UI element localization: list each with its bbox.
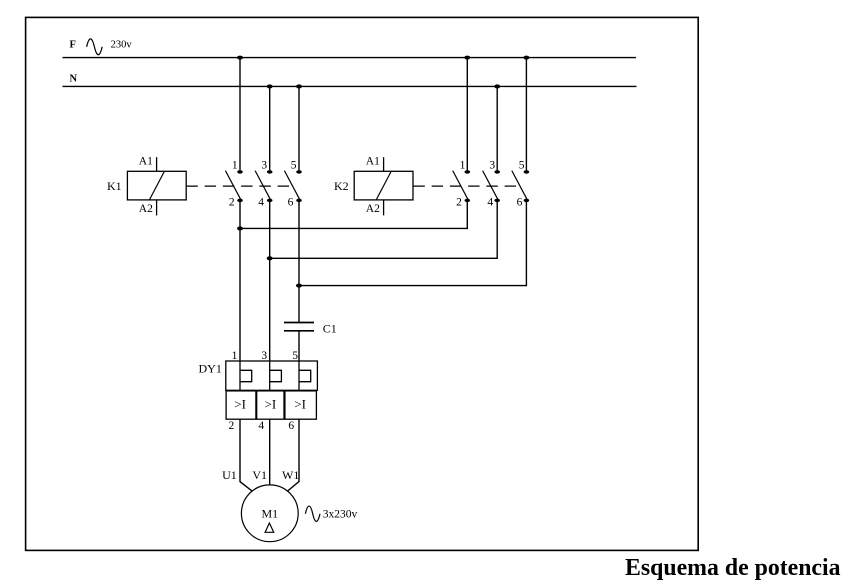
wire N down to K2 contact 3 [496, 86, 498, 170]
K2 mechanical linkage dashed line [413, 185, 516, 187]
motor delta winding symbol [265, 523, 274, 532]
capacitor C1 top plate [284, 322, 314, 324]
svg-text:2: 2 [229, 196, 235, 208]
svg-text:4: 4 [487, 196, 493, 208]
svg-text:1: 1 [232, 350, 238, 362]
junction dot F to K2 pole1 [464, 56, 470, 60]
DY1 trip unit box 1 [226, 391, 256, 419]
wire K1 pin6 down to C1 [298, 200, 300, 322]
svg-text:3: 3 [261, 159, 267, 171]
junction dot F to K1 pole1 [237, 56, 243, 60]
svg-text:1: 1 [232, 159, 238, 171]
K1 contact 5-6 blade [284, 171, 299, 200]
wire C1 down to DY1 pin5 [298, 331, 300, 361]
wire N neutral bus [63, 85, 637, 87]
wire DY1 pin4 to motor V1 [269, 419, 271, 485]
svg-text:K1: K1 [107, 179, 122, 193]
DY1 heater element 3 [299, 361, 311, 390]
K1 contact 1 top terminal dot [237, 170, 243, 174]
K1 mechanical linkage dashed line [186, 185, 289, 187]
wire DY1 pin6 to motor W1 [288, 419, 299, 491]
DY1 trip unit box 2 [257, 391, 284, 419]
junction dot wire1 [237, 226, 243, 230]
K1 contact 6 bottom terminal dot [296, 199, 302, 203]
junction dot N to K1 pole3 [267, 84, 273, 88]
svg-text:5: 5 [291, 159, 297, 171]
svg-text:Esquema de potencia: Esquema de potencia [625, 555, 841, 581]
K2 contact 5-6 blade [512, 171, 527, 200]
svg-text:5: 5 [292, 350, 298, 362]
svg-text:U1: U1 [222, 468, 237, 482]
K1 contact 4 bottom terminal dot [267, 199, 273, 203]
motor M1 circle [241, 485, 298, 542]
svg-text:K2: K2 [334, 179, 349, 193]
junction dot F to K2 pole5 [523, 56, 529, 60]
K2 contact 1 top terminal dot [465, 170, 471, 174]
K1 contact 2 bottom terminal dot [237, 199, 243, 203]
svg-text:3x230v: 3x230v [323, 508, 358, 520]
AC sine symbol at motor [305, 506, 320, 521]
svg-text:6: 6 [288, 420, 294, 432]
svg-text:5: 5 [519, 159, 525, 171]
wire K1 pin4 down to DY1 pin3 [269, 200, 271, 361]
svg-text:6: 6 [288, 196, 294, 208]
wire K2 pin6 to wire3 [299, 200, 526, 285]
wire K1 pin2 down to DY1 pin1 [239, 200, 241, 361]
svg-text:>I: >I [234, 397, 246, 412]
K2 contact 1-2 blade [453, 171, 468, 200]
K2 pin A1 lead [383, 157, 385, 171]
K2 contact 5 top terminal dot [524, 170, 530, 174]
junction dot N to K2 pole3 [494, 84, 500, 88]
svg-text:W1: W1 [282, 468, 299, 482]
thermal overload relay DY1 outer box [226, 361, 318, 390]
K1 contact 5 top terminal dot [296, 170, 302, 174]
junction dot wire3 [296, 284, 302, 288]
wire K2 pin4 to wire2 [270, 200, 498, 258]
K2 contact 2 bottom terminal dot [465, 199, 471, 203]
wire N down to K1 contact 3 [269, 86, 271, 170]
contactor coil K2 box [354, 171, 413, 200]
K2 contact 3 top terminal dot [494, 170, 500, 174]
wire F phase bus [63, 57, 637, 59]
K1 pin A2 lead [156, 200, 158, 216]
contactor coil K1 box [127, 171, 186, 200]
svg-text:N: N [70, 73, 78, 84]
svg-text:3: 3 [489, 159, 495, 171]
svg-text:A2: A2 [366, 203, 380, 215]
junction dot wire2 [267, 256, 273, 260]
svg-text:4: 4 [258, 196, 264, 208]
K1 pin A1 lead [156, 157, 158, 171]
svg-text:>I: >I [294, 397, 306, 412]
svg-text:A1: A1 [139, 155, 153, 167]
K2 contact 6 bottom terminal dot [524, 199, 530, 203]
svg-text:3: 3 [261, 350, 267, 362]
junction dot N to K1 pole5 [296, 84, 302, 88]
svg-text:2: 2 [456, 196, 462, 208]
svg-text:M1: M1 [262, 506, 279, 520]
svg-text:A2: A2 [139, 203, 153, 215]
svg-text:>I: >I [265, 397, 277, 412]
svg-text:DY1: DY1 [199, 362, 222, 376]
svg-text:4: 4 [258, 420, 264, 432]
svg-text:230v: 230v [111, 40, 133, 51]
K2 coil diagonal [376, 172, 391, 200]
svg-text:C1: C1 [323, 321, 337, 335]
wire F down to K2 contact 1 [466, 58, 468, 171]
K2 pin A2 lead [383, 200, 385, 216]
capacitor C1 bottom plate [284, 330, 314, 332]
svg-text:A1: A1 [366, 155, 380, 167]
svg-text:2: 2 [229, 420, 235, 432]
svg-text:6: 6 [517, 196, 523, 208]
DY1 trip unit box 3 [285, 391, 317, 419]
wire F down to K1 contact 1 [239, 58, 241, 171]
K1 coil diagonal [149, 172, 164, 200]
svg-text:F: F [70, 40, 76, 51]
K1 contact 1-2 blade [225, 171, 240, 200]
AC source sine symbol [87, 39, 103, 55]
DY1 heater element 1 [240, 361, 252, 390]
wire DY1 pin2 to motor U1 [240, 419, 252, 491]
K2 contact 3-4 blade [483, 171, 498, 200]
wire K2 pin2 to wire1 [240, 200, 467, 228]
K2 contact 4 bottom terminal dot [494, 199, 500, 203]
svg-text:V1: V1 [252, 468, 267, 482]
K1 contact 3-4 blade [255, 171, 270, 200]
wire N down to K1 contact 5 [298, 86, 300, 170]
K1 contact 3 top terminal dot [267, 170, 273, 174]
svg-text:1: 1 [460, 159, 466, 171]
DY1 heater element 2 [270, 361, 282, 390]
wire F down to K2 contact 5 [525, 58, 527, 171]
